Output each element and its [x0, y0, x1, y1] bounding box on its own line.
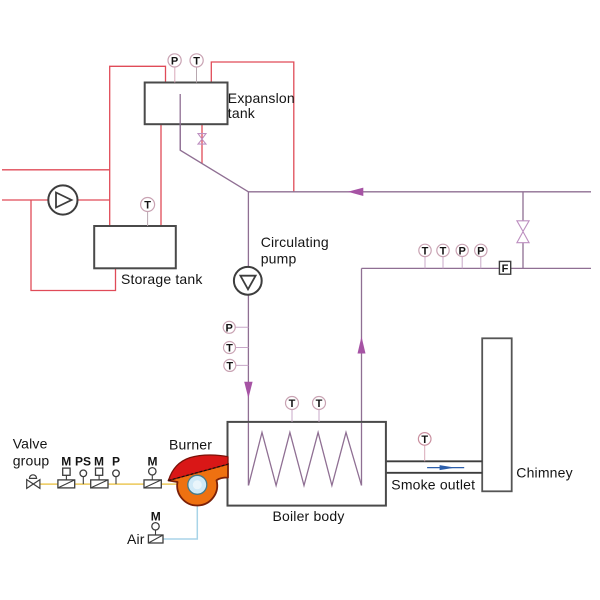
valve M3 body [144, 468, 161, 488]
svg-text:group: group [13, 452, 50, 468]
valve M2 body [91, 468, 108, 488]
wire purple: dip tube inside expansion tank [179, 94, 181, 150]
pressure switch PS [80, 470, 87, 484]
svg-text:T: T [421, 434, 428, 446]
svg-text:T: T [289, 398, 296, 410]
fuel line yellow [40, 483, 178, 485]
sensor row T2 [437, 244, 449, 257]
sensor P expansion [168, 54, 181, 68]
sensor T boiler 2 [313, 397, 326, 411]
wire purple: boiler zigzag coil [249, 432, 362, 485]
svg-text:Storage tank: Storage tank [121, 271, 203, 287]
sensor row T1 [419, 244, 431, 257]
wire purple: supply drop to boiler [247, 192, 249, 486]
svg-text:M: M [94, 455, 104, 469]
svg-text:M: M [61, 455, 71, 469]
svg-text:Expanslon: Expanslon [228, 90, 295, 106]
svg-text:Valve: Valve [13, 436, 48, 452]
burner body orange volute [169, 464, 229, 506]
svg-text:pump: pump [261, 251, 297, 267]
svg-text:Chimney: Chimney [516, 464, 573, 480]
pump P1 (storage charging pump) [48, 185, 77, 214]
pump P2 circulating pump [234, 267, 262, 295]
wire red: safety valve stem [201, 124, 203, 163]
wire purple: riser inside boiler [361, 423, 363, 486]
sensor row P1 [456, 244, 468, 257]
wire purple: supply drop inside boiler [247, 423, 249, 486]
flow arrow left on upper main [348, 188, 364, 196]
wire purple: expansion dip tube and diagonal [180, 94, 248, 192]
sensor T column 2 [224, 359, 236, 372]
svg-text:F: F [502, 263, 509, 275]
valve M4 air damper [148, 523, 163, 543]
svg-text:P: P [226, 322, 233, 334]
valve V1 safety valve (bowtie) [198, 134, 206, 145]
wire purple: right branch through valve [522, 192, 524, 269]
storage tank [94, 226, 176, 268]
chimney [482, 338, 512, 491]
burner dashed seam [169, 464, 229, 480]
burner fan eye [188, 475, 207, 494]
wire purple: lower main horizontal [362, 267, 592, 269]
burner red cap [169, 455, 229, 480]
flow meter F [499, 261, 510, 274]
svg-text:T: T [226, 360, 233, 372]
air line blue [163, 503, 197, 539]
sensor T smoke [418, 433, 431, 446]
smoke outlet duct [386, 461, 482, 473]
svg-text:Circulating: Circulating [261, 234, 329, 250]
svg-text:Air: Air [127, 531, 145, 547]
wire red: upper feed line from left edge [2, 169, 110, 171]
pressure gauge P [113, 470, 120, 484]
svg-text:tank: tank [228, 105, 256, 121]
wire purple: riser from boiler [361, 268, 363, 485]
wire purple: upper main horizontal [248, 191, 591, 193]
sensor T column 1 [224, 342, 236, 355]
svg-text:T: T [193, 55, 200, 67]
flow arrow up on riser [358, 337, 366, 354]
svg-text:Smoke outlet: Smoke outlet [391, 476, 475, 492]
svg-text:M: M [151, 510, 161, 524]
svg-text:PS: PS [75, 455, 91, 469]
wire red: expansion tank right riser to main line [211, 62, 293, 192]
wire red: expansion tank left drop to storage tank [160, 124, 162, 226]
svg-text:P: P [112, 455, 120, 469]
sensor row P2 [475, 244, 487, 257]
svg-text:Burner: Burner [169, 436, 212, 452]
svg-text:P: P [459, 245, 466, 257]
sensor stems plum [174, 67, 176, 83]
valve V2 right branch valve (bowtie) [517, 221, 529, 243]
svg-text:P: P [477, 245, 484, 257]
boiler body [228, 422, 386, 506]
valve M1 body [58, 468, 75, 488]
wire red: expansion loop left (tank top to left riser) [110, 66, 166, 226]
svg-text:T: T [316, 398, 323, 410]
wire red: storage tank bottom return [31, 200, 116, 291]
manual valve (valve group inlet) [27, 480, 40, 489]
sensor T storage [141, 198, 155, 212]
sensor T expansion [190, 54, 203, 68]
wire red: pump suction line from left edge [2, 199, 110, 201]
sensor P column [223, 321, 235, 334]
sensor T boiler 1 [286, 397, 299, 411]
wire purple: zigzag redrawn over boiler [249, 432, 362, 485]
svg-text:T: T [144, 200, 151, 212]
flow arrow down on supply drop [244, 382, 252, 399]
svg-text:P: P [171, 55, 178, 67]
svg-text:M: M [148, 455, 158, 469]
expansion tank [145, 83, 228, 125]
smoke flow arrow blue [427, 467, 464, 469]
svg-text:T: T [226, 343, 233, 355]
svg-text:T: T [422, 245, 429, 257]
svg-text:Boiler body: Boiler body [273, 508, 345, 524]
svg-text:T: T [440, 245, 447, 257]
